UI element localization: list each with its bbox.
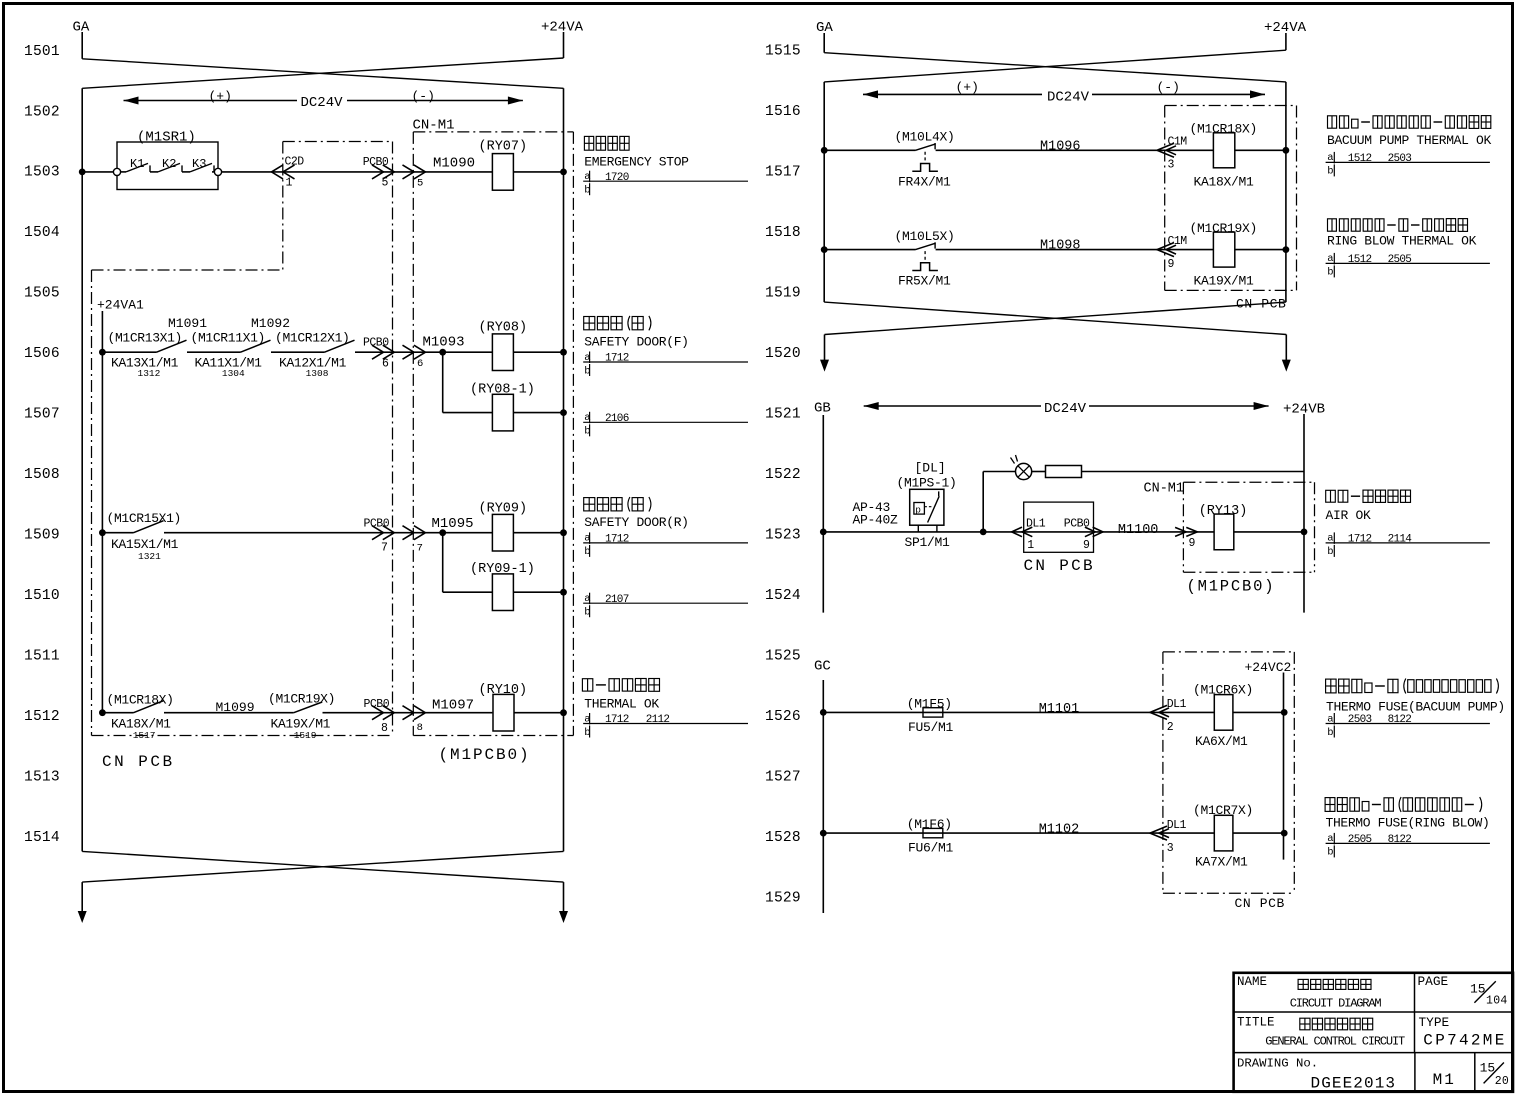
svg-text:NAME: NAME [1237, 975, 1267, 989]
svg-text:M1099: M1099 [216, 700, 255, 715]
svg-text:104: 104 [1486, 995, 1508, 1008]
svg-text:1: 1 [286, 177, 293, 190]
svg-text:8122: 8122 [1388, 714, 1412, 726]
svg-text:+24VA: +24VA [541, 20, 584, 36]
svg-text:7: 7 [381, 542, 388, 555]
svg-text:2112: 2112 [646, 714, 670, 726]
svg-text:DL1: DL1 [1167, 819, 1187, 832]
svg-text:PCB0: PCB0 [1064, 518, 1090, 531]
svg-text:FU5/M1: FU5/M1 [908, 720, 954, 735]
svg-text:CP742ME: CP742ME [1423, 1032, 1506, 1050]
svg-text:K1: K1 [130, 157, 144, 171]
svg-text:1712: 1712 [1348, 534, 1372, 546]
svg-text:6: 6 [417, 358, 423, 370]
svg-text:1511: 1511 [24, 648, 60, 664]
svg-text:(M1F5): (M1F5) [907, 696, 952, 711]
svg-text:CN PCB: CN PCB [1024, 557, 1095, 575]
svg-text:DL1: DL1 [1167, 698, 1187, 711]
svg-text:TITLE: TITLE [1237, 1016, 1275, 1030]
svg-text:(M1CR15X1): (M1CR15X1) [107, 511, 182, 526]
svg-text:1508: 1508 [24, 467, 60, 483]
svg-text:(M1CR6X): (M1CR6X) [1193, 682, 1253, 697]
svg-text:BACUUM PUMP THERMAL OK: BACUUM PUMP THERMAL OK [1327, 133, 1491, 148]
svg-text:CIRCUIT DIAGRAM: CIRCUIT DIAGRAM [1290, 997, 1382, 1011]
svg-text:5: 5 [382, 177, 389, 190]
svg-text:1312: 1312 [138, 368, 161, 379]
svg-text:(M1CR12X1): (M1CR12X1) [275, 331, 350, 346]
svg-text:1: 1 [1027, 539, 1034, 552]
svg-text:GA: GA [73, 20, 90, 36]
svg-text:AIR OK: AIR OK [1326, 508, 1372, 523]
svg-text:9: 9 [1189, 537, 1196, 550]
svg-text:KA19X/M1: KA19X/M1 [1194, 274, 1255, 289]
svg-text:2505: 2505 [1388, 254, 1412, 266]
svg-text:(M1CR7X): (M1CR7X) [1193, 803, 1253, 818]
svg-text:C1M: C1M [1168, 235, 1188, 248]
svg-text:M1101: M1101 [1039, 702, 1080, 717]
svg-text:1521: 1521 [765, 406, 801, 422]
svg-text:1505: 1505 [24, 286, 60, 302]
svg-text:SAFETY DOOR(F): SAFETY DOOR(F) [584, 334, 688, 349]
svg-text:(M1F6): (M1F6) [907, 817, 952, 832]
svg-text:1321: 1321 [138, 551, 161, 562]
svg-text:b: b [1327, 267, 1333, 279]
svg-text:1522: 1522 [765, 467, 801, 483]
svg-text:KA6X/M1: KA6X/M1 [1195, 734, 1248, 749]
svg-text:b: b [1327, 166, 1333, 178]
svg-text:1720: 1720 [605, 172, 629, 184]
svg-text:TYPE: TYPE [1419, 1015, 1450, 1030]
svg-text:M1097: M1097 [432, 698, 474, 714]
svg-text:CN PCB: CN PCB [102, 753, 175, 771]
svg-text:7: 7 [417, 543, 423, 555]
svg-text:(RY08-1): (RY08-1) [470, 383, 535, 398]
svg-text:CN-M1: CN-M1 [1144, 482, 1185, 497]
svg-text:(M10L5X): (M10L5X) [895, 229, 955, 244]
svg-text:M1096: M1096 [1040, 139, 1081, 154]
svg-text:CN-M1: CN-M1 [413, 118, 455, 134]
svg-text:8: 8 [381, 722, 388, 735]
svg-text:(M1CR11X1): (M1CR11X1) [191, 331, 266, 346]
svg-text:b: b [1327, 847, 1333, 859]
svg-text:PCB0: PCB0 [364, 698, 390, 711]
svg-text:3: 3 [1167, 842, 1174, 855]
svg-text:1507: 1507 [24, 407, 60, 423]
svg-text:(-): (-) [412, 89, 435, 104]
svg-text:1515: 1515 [765, 43, 801, 59]
svg-text:1512: 1512 [1348, 153, 1372, 165]
svg-text:1523: 1523 [765, 527, 801, 543]
svg-text:2114: 2114 [1388, 534, 1413, 546]
svg-text:20: 20 [1495, 1075, 1509, 1088]
svg-text:KA18X/M1: KA18X/M1 [1194, 174, 1255, 189]
svg-text:(M1CR19X): (M1CR19X) [1190, 221, 1258, 236]
svg-text:(M10L4X): (M10L4X) [895, 130, 955, 145]
svg-text:K2: K2 [162, 157, 176, 171]
svg-text:FR5X/M1: FR5X/M1 [898, 274, 951, 289]
svg-text:p: p [915, 504, 921, 515]
svg-text:1501: 1501 [24, 44, 60, 60]
svg-text:1516: 1516 [765, 104, 801, 120]
svg-text:9: 9 [1083, 539, 1090, 552]
svg-text:K3: K3 [192, 157, 206, 171]
svg-text:8: 8 [417, 722, 423, 734]
svg-text:1517: 1517 [133, 730, 156, 741]
svg-text:(M1PCB0): (M1PCB0) [439, 746, 531, 764]
svg-text:5: 5 [417, 178, 423, 190]
svg-text:CN PCB: CN PCB [1235, 896, 1285, 911]
svg-text:1513: 1513 [24, 769, 60, 785]
svg-text:b: b [1327, 727, 1333, 739]
svg-text:M1091: M1091 [168, 316, 207, 331]
svg-text:(M1PS-1): (M1PS-1) [897, 476, 957, 491]
svg-text:THERMO FUSE(RING BLOW): THERMO FUSE(RING BLOW) [1326, 816, 1490, 831]
svg-text:C1M: C1M [1168, 136, 1188, 149]
svg-text:DC24V: DC24V [301, 95, 344, 111]
svg-text:M1100: M1100 [1118, 523, 1159, 538]
svg-text:3: 3 [1168, 159, 1175, 172]
svg-text:DC24V: DC24V [1044, 401, 1087, 417]
svg-text:b: b [1327, 546, 1333, 558]
svg-text:GENERAL CONTROL CIRCUIT: GENERAL CONTROL CIRCUIT [1265, 1034, 1405, 1048]
svg-text:M1095: M1095 [432, 516, 474, 532]
svg-text:(RY09-1): (RY09-1) [470, 562, 535, 577]
svg-text:(M1CR19X): (M1CR19X) [268, 692, 335, 707]
svg-text:1525: 1525 [765, 648, 801, 664]
svg-text:1527: 1527 [765, 769, 801, 785]
svg-text:GC: GC [814, 659, 831, 675]
svg-text:1712: 1712 [605, 534, 629, 546]
svg-text:1528: 1528 [765, 830, 801, 846]
svg-text:9: 9 [1168, 258, 1175, 271]
svg-text:1529: 1529 [765, 890, 801, 906]
svg-text:6: 6 [382, 358, 389, 371]
svg-text:1517: 1517 [765, 164, 801, 180]
svg-text:(M1PCB0): (M1PCB0) [1187, 578, 1276, 596]
svg-text:THERMAL OK: THERMAL OK [584, 696, 659, 711]
svg-text:(+): (+) [956, 80, 979, 95]
svg-text:1506: 1506 [24, 346, 60, 362]
svg-text:SAFETY DOOR(R): SAFETY DOOR(R) [584, 515, 688, 530]
svg-text:1509: 1509 [24, 527, 60, 543]
svg-text:1512: 1512 [1348, 254, 1372, 266]
svg-text:(M1SR1): (M1SR1) [137, 130, 196, 146]
svg-text:1524: 1524 [765, 588, 801, 604]
svg-text:M1: M1 [1433, 1071, 1456, 1089]
svg-text:8122: 8122 [1388, 834, 1412, 846]
svg-text:2505: 2505 [1348, 834, 1372, 846]
svg-text:(M1CR13X1): (M1CR13X1) [108, 331, 183, 346]
svg-text:1510: 1510 [24, 588, 60, 604]
svg-text:GB: GB [814, 400, 831, 416]
svg-text:+24VA1: +24VA1 [97, 298, 144, 313]
svg-text:(RY13): (RY13) [1199, 504, 1248, 519]
svg-text:FR4X/M1: FR4X/M1 [898, 174, 951, 189]
svg-text:1520: 1520 [765, 346, 801, 362]
svg-text:1526: 1526 [765, 709, 801, 725]
svg-text:1512: 1512 [24, 709, 60, 725]
svg-text:1502: 1502 [24, 104, 60, 120]
svg-text:DRAWING No.: DRAWING No. [1237, 1057, 1318, 1071]
svg-text:EMERGENCY STOP: EMERGENCY STOP [584, 155, 689, 170]
svg-text:[DL]: [DL] [915, 461, 946, 476]
svg-text:(RY08): (RY08) [479, 321, 528, 336]
svg-text:1518: 1518 [765, 225, 801, 241]
svg-text:2503: 2503 [1388, 153, 1412, 165]
svg-text:1519: 1519 [294, 730, 317, 741]
svg-text:(RY07): (RY07) [479, 140, 528, 155]
svg-text:THERMO FUSE(BACUUM PUMP): THERMO FUSE(BACUUM PUMP) [1326, 700, 1505, 715]
svg-text:1308: 1308 [306, 368, 329, 379]
svg-text:1504: 1504 [24, 225, 60, 241]
svg-text:(M1CR18X): (M1CR18X) [1190, 122, 1258, 137]
svg-text:(RY10): (RY10) [479, 683, 528, 698]
svg-text:M1093: M1093 [423, 335, 465, 351]
svg-text:(-): (-) [1157, 80, 1180, 95]
svg-text:M1102: M1102 [1039, 823, 1080, 838]
svg-text:KA15X1/M1: KA15X1/M1 [111, 537, 179, 552]
svg-text:1519: 1519 [765, 285, 801, 301]
svg-text:1514: 1514 [24, 830, 60, 846]
svg-text:1304: 1304 [222, 368, 245, 379]
svg-text:PCB0: PCB0 [363, 156, 389, 169]
svg-text:1503: 1503 [24, 165, 60, 181]
svg-text:DGEE2013: DGEE2013 [1311, 1074, 1397, 1092]
svg-text:SP1/M1: SP1/M1 [905, 535, 951, 550]
svg-text:1712: 1712 [605, 353, 629, 365]
svg-text:M1092: M1092 [251, 316, 290, 331]
svg-text:FU6/M1: FU6/M1 [908, 841, 954, 856]
svg-text:2503: 2503 [1348, 714, 1372, 726]
svg-text:PCB0: PCB0 [363, 337, 389, 350]
svg-text:2: 2 [1167, 721, 1174, 734]
svg-text:M1090: M1090 [433, 156, 475, 172]
svg-text:2107: 2107 [605, 594, 629, 606]
svg-text:(M1CR18X): (M1CR18X) [107, 693, 174, 708]
svg-text:DC24V: DC24V [1047, 89, 1090, 105]
svg-text:C2D: C2D [285, 156, 305, 169]
svg-text:AP-40Z: AP-40Z [853, 513, 899, 528]
svg-text:KA7X/M1: KA7X/M1 [1195, 855, 1248, 870]
svg-text:RING BLOW THERMAL OK: RING BLOW THERMAL OK [1327, 233, 1477, 248]
svg-text:M1098: M1098 [1040, 239, 1081, 254]
svg-text:(RY09): (RY09) [479, 502, 528, 517]
svg-text:PCB0: PCB0 [364, 518, 390, 531]
svg-text:PAGE: PAGE [1418, 974, 1449, 989]
svg-text:1712: 1712 [605, 714, 629, 726]
svg-text:(+): (+) [209, 89, 232, 104]
svg-text:2106: 2106 [605, 413, 629, 425]
